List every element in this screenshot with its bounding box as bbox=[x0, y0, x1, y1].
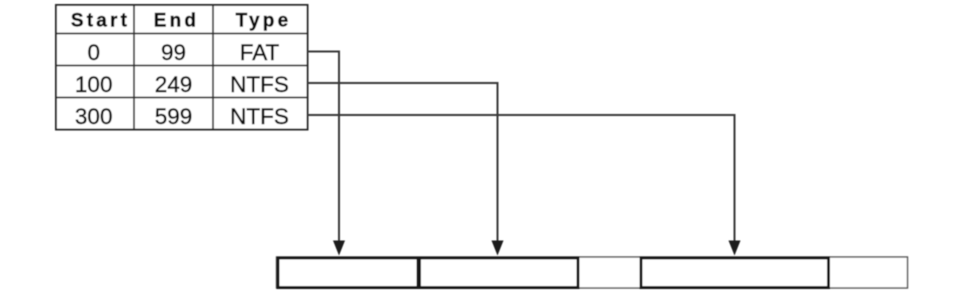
svg-text:NTFS: NTFS bbox=[230, 72, 289, 97]
table column divider Start|End bbox=[133, 5, 135, 130]
svg-text:99: 99 bbox=[161, 40, 186, 65]
disk partition segment FAT bbox=[278, 258, 418, 288]
svg-text:End: End bbox=[154, 11, 200, 32]
table row divider 1 bbox=[56, 65, 308, 67]
table column divider End|Type bbox=[212, 5, 214, 130]
svg-text:100: 100 bbox=[75, 72, 113, 97]
svg-text:NTFS: NTFS bbox=[230, 104, 289, 129]
svg-text:300: 300 bbox=[75, 104, 113, 129]
arrowhead FAT bbox=[333, 241, 345, 256]
svg-text:599: 599 bbox=[155, 104, 193, 129]
arrowhead NTFS 2 bbox=[492, 241, 504, 256]
disk bar outline bbox=[277, 257, 908, 288]
svg-text:Type: Type bbox=[236, 11, 292, 32]
table header row divider bbox=[56, 33, 308, 35]
connector wire from NTFS row 2 bbox=[308, 83, 498, 243]
disk partition segment NTFS 1 bbox=[420, 258, 579, 288]
partition table outer border bbox=[56, 5, 308, 130]
table row divider 2 bbox=[56, 97, 308, 99]
svg-text:0: 0 bbox=[87, 40, 100, 65]
svg-text:249: 249 bbox=[155, 72, 193, 97]
svg-text:FAT: FAT bbox=[240, 40, 280, 65]
svg-text:Start: Start bbox=[71, 11, 130, 32]
connector wire from NTFS row 3 bbox=[308, 115, 735, 243]
disk partition segment NTFS 2 bbox=[641, 258, 829, 288]
connector wire from FAT row bbox=[308, 52, 340, 244]
arrowhead NTFS 3 bbox=[729, 241, 741, 256]
